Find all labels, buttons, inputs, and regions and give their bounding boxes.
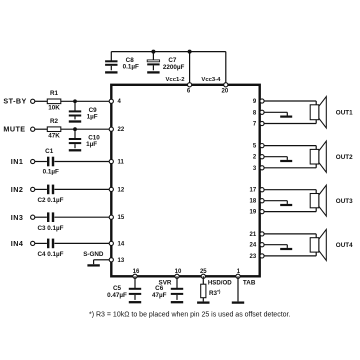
svg-text:0.1µF: 0.1µF <box>43 168 59 175</box>
wire jog OUT3 top <box>315 190 317 194</box>
svg-text:R2: R2 <box>50 118 59 125</box>
ground (OUT1 return) <box>280 116 292 118</box>
wire pin 3 to speaker OUT2 <box>264 167 316 169</box>
pin 21 <box>260 232 264 236</box>
svg-text:21: 21 <box>250 232 257 238</box>
wire R2 to pin 22 <box>61 128 110 130</box>
wire stub ground OUT3 <box>286 201 288 204</box>
junction C7 tap <box>151 50 155 54</box>
pin 8 <box>260 110 264 114</box>
wire pin 8 to ground <box>264 111 287 113</box>
svg-text:*) R3 = 10kΩ to be placed when: *) R3 = 10kΩ to be placed when pin 25 is… <box>89 312 290 319</box>
svg-text:C3 0.1µF: C3 0.1µF <box>37 225 63 232</box>
wire ST-BY to R1 <box>35 100 48 102</box>
svg-text:Vcc1-2: Vcc1-2 <box>166 77 186 83</box>
wire pin 13 to S-GND <box>94 259 110 261</box>
pin 12 <box>109 187 113 191</box>
wire pin 2 to ground <box>264 156 287 158</box>
junction node ST-BY/C9 <box>73 99 77 103</box>
svg-text:Vcc3-4: Vcc3-4 <box>201 77 221 83</box>
svg-text:0.1µF: 0.1µF <box>123 64 139 71</box>
wire jog OUT4 top <box>315 234 317 238</box>
svg-text:C1: C1 <box>45 148 54 155</box>
wire IN4 to C4 <box>35 242 47 244</box>
svg-text:11: 11 <box>118 160 125 166</box>
pin 22 <box>109 127 113 131</box>
wire jog OUT1 top <box>315 101 317 105</box>
resistor R1 <box>47 99 61 104</box>
svg-text:1µF: 1µF <box>87 113 98 120</box>
svg-text:10K: 10K <box>48 105 60 112</box>
wire supply rail <box>111 51 226 53</box>
wire stub ground OUT2 <box>286 157 288 160</box>
svg-text:IN2: IN2 <box>11 185 24 194</box>
op-amp IC U1 body (quad power amplifier) <box>111 85 259 276</box>
wire pin 23 to speaker OUT4 <box>264 255 316 257</box>
pin 18 <box>260 199 264 203</box>
svg-text:22: 22 <box>118 127 125 133</box>
terminal IN4 <box>31 241 35 245</box>
capacitor C8 <box>110 52 112 62</box>
wire IN3 to C3 <box>35 216 47 218</box>
wire pin 17 to speaker OUT3 <box>264 189 316 191</box>
pin 23 <box>260 254 264 258</box>
pin 2 <box>260 155 264 159</box>
pin 5 <box>260 144 264 148</box>
pin 1 <box>236 274 240 278</box>
wire jog OUT3 bottom <box>315 208 317 212</box>
svg-text:IN1: IN1 <box>11 157 24 166</box>
svg-text:17: 17 <box>250 188 257 194</box>
svg-text:13: 13 <box>118 258 125 264</box>
wire to pin 6 <box>189 52 191 85</box>
svg-text:TAB: TAB <box>243 280 256 287</box>
pin 11 <box>109 159 113 163</box>
resistor R3 <box>202 276 204 284</box>
wire stub ground OUT1 <box>286 112 288 115</box>
wire pin 9 to speaker OUT1 <box>264 100 316 102</box>
svg-text:0.47µF: 0.47µF <box>107 292 127 299</box>
wire jog OUT1 bottom <box>315 120 317 124</box>
svg-text:IN3: IN3 <box>11 213 24 222</box>
ground (R3) <box>197 301 209 303</box>
wire jog OUT2 top <box>315 146 317 150</box>
wire jog OUT2 bottom <box>315 164 317 168</box>
wire C4 to pin 14 <box>54 242 109 244</box>
pin 20 <box>224 83 228 87</box>
svg-text:23: 23 <box>250 254 257 260</box>
terminal IN3 <box>31 215 35 219</box>
wire C2 to pin 12 <box>54 188 109 190</box>
wire C3 to pin 15 <box>54 216 109 218</box>
wire jog OUT4 bottom <box>315 252 317 256</box>
speaker OUT3 <box>319 185 327 216</box>
svg-text:OUT2: OUT2 <box>336 154 353 161</box>
svg-text:OUT3: OUT3 <box>336 198 353 205</box>
pin 6 <box>188 83 192 87</box>
svg-text:47µF: 47µF <box>152 292 167 299</box>
terminal MUTE <box>31 127 35 131</box>
svg-text:IN4: IN4 <box>11 239 24 248</box>
wire pin 21 to speaker OUT4 <box>264 233 316 235</box>
svg-text:47K: 47K <box>48 133 60 140</box>
ground (C6) <box>171 301 183 303</box>
wire pin 24 to ground <box>264 244 287 246</box>
svg-text:OUT1: OUT1 <box>336 110 353 117</box>
svg-text:S-GND: S-GND <box>83 251 104 258</box>
wire C1 to pin 11 <box>54 161 109 163</box>
wire to pin 20 <box>225 52 227 85</box>
wire IN1 to C1 <box>35 161 47 163</box>
pin 7 <box>260 121 264 125</box>
svg-text:R1: R1 <box>50 90 59 97</box>
capacitor C6 <box>176 276 178 289</box>
wire IN2 to C2 <box>35 188 47 190</box>
ground (OUT4 return) <box>280 248 292 250</box>
ground (C7) <box>147 71 159 73</box>
wire pin 18 to ground <box>264 200 287 202</box>
svg-text:12: 12 <box>118 187 125 193</box>
pin 9 <box>260 99 264 103</box>
capacitor C10 <box>74 129 76 139</box>
wire pin 5 to speaker OUT2 <box>264 145 316 147</box>
junction pin-6 branch <box>188 50 192 54</box>
pin 3 <box>260 166 264 170</box>
svg-text:20: 20 <box>222 89 229 95</box>
capacitor C9 <box>74 101 76 111</box>
ground (C10) <box>69 149 81 151</box>
capacitor C3 <box>47 212 49 222</box>
wire R1 to pin 4 <box>61 100 110 102</box>
capacitor C5 <box>134 276 136 289</box>
wire pin 1 to ground <box>237 276 239 301</box>
ground (OUT2 return) <box>280 160 292 162</box>
ground S-GND <box>87 264 99 266</box>
svg-text:C2 0.1µF: C2 0.1µF <box>37 197 63 204</box>
pin 10 <box>175 274 179 278</box>
svg-text:ST-BY: ST-BY <box>3 97 26 106</box>
svg-text:10: 10 <box>175 269 182 275</box>
speaker OUT4 <box>319 229 327 260</box>
svg-text:2200µF: 2200µF <box>163 64 185 71</box>
svg-text:18: 18 <box>250 199 257 205</box>
svg-text:24: 24 <box>250 243 257 249</box>
pin 19 <box>260 210 264 214</box>
pin 14 <box>109 241 113 245</box>
terminal ST-BY <box>31 99 35 103</box>
resistor R2 <box>47 127 61 132</box>
svg-text:1µF: 1µF <box>86 141 97 148</box>
svg-text:19: 19 <box>250 210 257 216</box>
pin 24 <box>260 243 264 247</box>
pin 15 <box>109 215 113 219</box>
junction node MUTE/C10 <box>73 127 77 131</box>
pin 13 <box>109 258 113 262</box>
pin 4 <box>109 99 113 103</box>
pin 25 <box>201 274 205 278</box>
svg-text:C4 0.1µF: C4 0.1µF <box>37 251 63 258</box>
terminal IN2 <box>31 187 35 191</box>
wire MUTE to R2 <box>35 128 48 130</box>
ground (TAB) <box>232 301 244 303</box>
capacitor C7 (electrolytic) <box>152 52 154 61</box>
ground (C5) <box>129 301 141 303</box>
terminal IN1 <box>31 159 35 163</box>
wire pin 7 to speaker OUT1 <box>264 123 316 125</box>
pin 17 <box>260 188 264 192</box>
svg-text:HSD/OD: HSD/OD <box>208 280 232 287</box>
svg-text:16: 16 <box>133 269 140 275</box>
svg-text:OUT4: OUT4 <box>336 242 353 249</box>
svg-text:15: 15 <box>118 215 125 221</box>
ground (OUT3 return) <box>280 204 292 206</box>
svg-text:25: 25 <box>200 269 207 275</box>
speaker OUT1 <box>319 97 327 129</box>
ground (C8) <box>105 71 117 73</box>
speaker OUT2 <box>319 141 327 172</box>
capacitor C4 <box>47 239 49 249</box>
capacitor C2 <box>47 185 49 195</box>
svg-text:14: 14 <box>118 241 125 247</box>
wire stub ground OUT4 <box>286 245 288 248</box>
wire pin 19 to speaker OUT3 <box>264 211 316 213</box>
capacitor C1 <box>47 157 49 167</box>
svg-text:MUTE: MUTE <box>3 125 25 134</box>
svg-text:C7: C7 <box>168 57 177 64</box>
ground (C9) <box>69 120 81 122</box>
pin 16 <box>133 274 137 278</box>
